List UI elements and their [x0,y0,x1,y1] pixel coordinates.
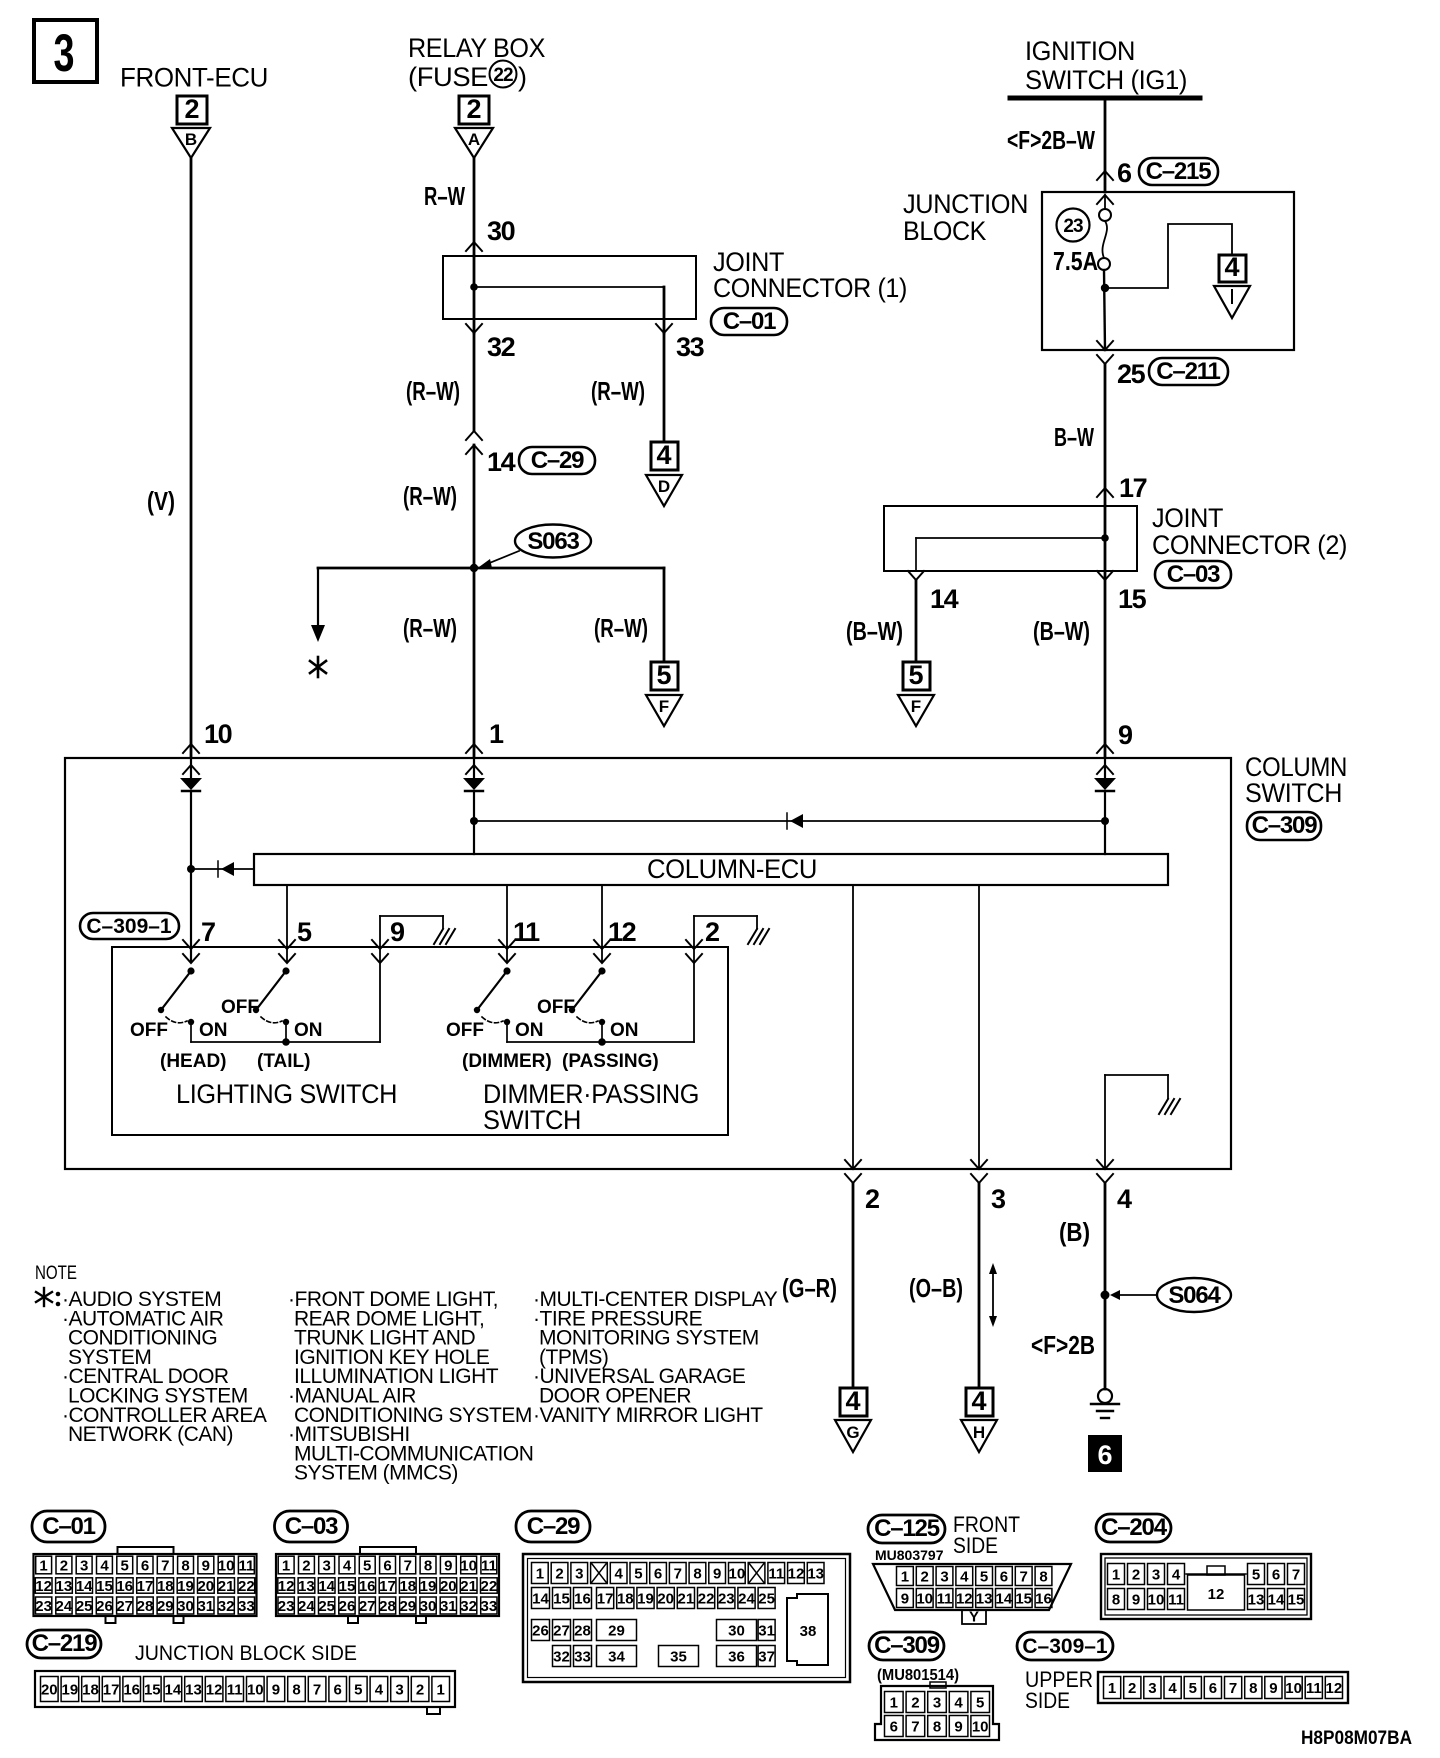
svg-text:13: 13 [1248,1592,1265,1609]
label COLUMN SWITCH C-309 [1245,752,1347,840]
svg-text:2: 2 [416,1682,424,1699]
svg-text:SIDE: SIDE [1025,1688,1070,1713]
chevron pin 6 [1097,171,1113,180]
svg-text:3: 3 [1148,1680,1156,1697]
svg-text:11: 11 [481,1558,497,1575]
wire internal bus with arrow [474,813,1105,829]
svg-text:CONNECTOR (2): CONNECTOR (2) [1152,530,1347,560]
svg-text:6: 6 [334,1682,342,1699]
svg-text:28: 28 [379,1598,396,1615]
chevron exit pin 2 [845,1160,861,1169]
ground bracket pin 9sw [380,916,455,944]
svg-text:11: 11 [1168,1592,1184,1609]
svg-text:3: 3 [940,1569,948,1586]
svg-text:(FUSE: (FUSE [408,62,488,92]
chevron pin 7 [183,954,199,963]
wire (R-W) 33 down [663,333,666,442]
svg-text:(R–W): (R–W) [591,376,645,406]
svg-text:5: 5 [976,1695,984,1712]
chevron pin 10 [183,744,199,753]
svg-text:23: 23 [35,1598,52,1615]
svg-text:11: 11 [238,1558,254,1575]
switch TAIL [253,967,290,1042]
svg-text:F: F [659,697,669,716]
svg-text:ON: ON [610,1020,639,1041]
wire (R-W) C-29 to S063 junction [473,445,476,568]
svg-text:12: 12 [788,1566,805,1583]
svg-text:17: 17 [137,1578,154,1595]
chevron pin 30 [466,242,482,251]
svg-text:5: 5 [634,1566,642,1583]
svg-text:8: 8 [693,1566,701,1583]
chevron below pin 2 [845,1174,861,1183]
svg-text:4: 4 [1168,1680,1177,1697]
svg-text:2: 2 [921,1569,929,1586]
svg-text:2: 2 [865,1184,879,1214]
svg-text:(B–W): (B–W) [846,616,903,646]
svg-text:6: 6 [141,1558,149,1575]
svg-text:3: 3 [991,1184,1006,1214]
svg-text:OFF: OFF [221,997,259,1018]
wire branch to 4 inside junction block [1105,224,1232,288]
svg-text:32: 32 [487,332,515,362]
svg-text:11: 11 [1306,1680,1322,1697]
wire (R-W) 32 to C-29 [473,333,476,430]
chevron pin 9 [1097,744,1113,753]
connector box 5 (to F) [651,660,678,690]
svg-text:C–309–1: C–309–1 [86,915,172,938]
triangle G [835,1420,871,1452]
svg-text:4: 4 [343,1558,352,1575]
chevron pin 11 [499,954,515,963]
svg-text:14: 14 [165,1682,182,1699]
connector pinout C-204 [1096,1514,1311,1619]
svg-text:6: 6 [1000,1569,1008,1586]
svg-text:5: 5 [354,1682,362,1699]
node junction left [187,865,195,873]
svg-text:8: 8 [292,1682,300,1699]
svg-text:12: 12 [1208,1586,1225,1603]
svg-text:SWITCH (IG1): SWITCH (IG1) [1025,65,1187,95]
svg-text:JOINT: JOINT [1152,503,1223,533]
triangle F [646,695,682,726]
svg-text:24: 24 [56,1598,73,1615]
svg-text:32: 32 [218,1598,235,1615]
chevron pin 5 [279,954,295,963]
svg-text:9: 9 [1132,1592,1140,1609]
pill C-03 [1155,561,1231,588]
svg-text:22: 22 [698,1591,715,1608]
wire pin 9sw [379,916,381,962]
ground bracket pin 2sw [694,916,769,944]
svg-text:4: 4 [845,1386,860,1416]
svg-text:30: 30 [177,1598,194,1615]
svg-text:4: 4 [954,1695,963,1712]
label RELAY BOX (FUSE 22) [408,33,545,92]
chevron exit pin 3 [971,1160,987,1169]
svg-text:C–215: C–215 [1146,158,1212,185]
label IGNITION SWITCH (IG1) [1025,36,1187,95]
chevron pin 2sw [686,954,702,963]
svg-text:C–29: C–29 [531,447,584,474]
svg-text:OFF: OFF [130,1020,168,1041]
svg-text:3: 3 [323,1558,331,1575]
svg-text:14: 14 [532,1591,549,1608]
svg-text:4: 4 [1117,1184,1132,1214]
svg-text:18: 18 [399,1578,416,1595]
wire junction to COLUMN-ECU left with arrow [191,861,254,877]
chevron pin 14 [908,571,924,580]
svg-text:12: 12 [956,1591,973,1608]
double arrow symbol [989,1263,997,1327]
svg-text:B: B [185,130,197,149]
svg-text:33: 33 [676,332,705,362]
wire (V) from FRONT-ECU to column switch [190,158,193,757]
sheet number box 3 [34,20,97,83]
svg-text:7.5A: 7.5A [1053,246,1098,276]
joint connector (1) box [443,256,696,319]
ground terminal [1091,1389,1119,1418]
svg-text:8: 8 [1039,1569,1047,1586]
svg-text:14: 14 [930,584,959,614]
triangle I [1214,286,1250,318]
label JOINT CONNECTOR (1) [713,247,907,303]
svg-text:27: 27 [359,1598,376,1615]
svg-text:4: 4 [656,440,671,470]
svg-text:11: 11 [227,1682,243,1699]
svg-text:33: 33 [574,1649,591,1666]
node S064 junction [1101,1291,1110,1300]
svg-text:4: 4 [960,1569,969,1586]
svg-text:7: 7 [1020,1569,1028,1586]
svg-text:C–29: C–29 [527,1513,580,1540]
wire pin9 down [1104,791,1106,854]
svg-text:25: 25 [318,1598,335,1615]
wire pin 4 inside box [1104,1075,1106,1169]
svg-text:C–309: C–309 [1252,812,1318,839]
triangle B [172,128,210,158]
svg-text:12: 12 [278,1578,295,1595]
svg-text:7: 7 [201,917,215,947]
svg-text:5: 5 [297,917,312,947]
svg-text:CONNECTOR (1): CONNECTOR (1) [713,273,907,303]
svg-text:(TAIL): (TAIL) [257,1051,310,1072]
svg-text:4: 4 [615,1566,624,1583]
lighting/dimmer switch box [112,947,728,1135]
circled fuse number 23 [1057,209,1090,242]
svg-text:): ) [518,62,527,92]
svg-text:19: 19 [637,1591,654,1608]
wire B-W [1104,364,1107,506]
svg-text:16: 16 [1035,1591,1052,1608]
svg-text:2: 2 [302,1558,310,1575]
svg-text:32: 32 [553,1649,570,1666]
svg-text:10: 10 [972,1719,989,1736]
svg-text:·VANITY MIRROR LIGHT: ·VANITY MIRROR LIGHT [533,1404,763,1427]
svg-text:6: 6 [654,1566,662,1583]
note block [35,1263,778,1485]
svg-text:2: 2 [705,917,719,947]
svg-text:25: 25 [76,1598,93,1615]
svg-text:3: 3 [933,1695,941,1712]
wire (G-R) [852,1183,855,1388]
svg-text:13: 13 [976,1591,993,1608]
ground reference box 6 [1088,1435,1122,1472]
svg-text:2: 2 [184,94,199,124]
wire lighting ON bus [191,963,380,1046]
triangle F right [898,695,934,726]
triangle H [961,1420,997,1452]
svg-text:7: 7 [911,1719,919,1736]
svg-text:29: 29 [157,1598,174,1615]
svg-text:9: 9 [202,1558,210,1575]
svg-text:11: 11 [937,1591,953,1608]
svg-text:26: 26 [96,1598,113,1615]
svg-text:28: 28 [137,1598,154,1615]
entry terminal pin 9 [1094,758,1116,791]
svg-text:(R–W): (R–W) [403,613,457,643]
svg-text:1: 1 [1108,1680,1116,1697]
svg-text:8: 8 [1249,1680,1257,1697]
wire (B-W) to column switch [1104,580,1107,757]
pill C-309-1 [80,913,179,939]
svg-text:RELAY BOX: RELAY BOX [408,33,545,63]
svg-text:20: 20 [657,1591,674,1608]
svg-text:LIGHTING SWITCH: LIGHTING SWITCH [176,1079,397,1109]
svg-text:A: A [468,130,480,149]
svg-text:16: 16 [123,1682,140,1699]
connector box 2 (RELAY BOX) [459,94,489,124]
wire through joint connector (2) [1104,506,1107,578]
chevron exit junction block [1097,341,1113,350]
chevron pin 17 [1097,488,1113,497]
wire to asterisk branch [311,568,325,642]
connector pinout C-309 [869,1632,999,1740]
connector box 4 (to I) [1219,252,1246,282]
svg-text:21: 21 [678,1591,695,1608]
label asterisk [310,657,326,677]
double chevron C-29 [466,431,482,454]
svg-text:21: 21 [218,1578,235,1595]
svg-text:9: 9 [954,1719,962,1736]
chevron pin 15 [1097,571,1113,580]
wire pin 2sw [693,916,695,962]
wire horizontal S063 bus [318,567,664,570]
svg-text:1: 1 [39,1558,47,1575]
connector pinout C-03 [275,1511,500,1623]
svg-text:(PASSING): (PASSING) [562,1051,659,1072]
svg-text:17: 17 [379,1578,396,1595]
svg-text:10: 10 [1285,1680,1302,1697]
svg-text:B–W: B–W [1054,422,1094,452]
svg-text:2: 2 [60,1558,68,1575]
wire (B-W) to 5F [915,580,918,662]
svg-text:18: 18 [617,1591,634,1608]
svg-text:ON: ON [199,1020,228,1041]
svg-text:5: 5 [1189,1680,1197,1697]
svg-text:OFF: OFF [446,1020,484,1041]
svg-text:5: 5 [1252,1567,1260,1584]
svg-text:(R–W): (R–W) [594,613,648,643]
svg-text:20: 20 [440,1578,457,1595]
svg-text:1: 1 [536,1566,544,1583]
svg-text:(O–B): (O–B) [909,1273,963,1303]
svg-text:31: 31 [197,1598,214,1615]
svg-text:2: 2 [1132,1567,1140,1584]
svg-text:15: 15 [96,1578,113,1595]
svg-text:14: 14 [996,1591,1013,1608]
switch PASSING [569,967,606,1042]
splice S063 [479,525,591,569]
svg-text:18: 18 [157,1578,174,1595]
svg-text:38: 38 [800,1623,817,1640]
svg-text:7: 7 [674,1566,682,1583]
svg-text:<F>2B: <F>2B [1031,1330,1095,1360]
svg-text:12: 12 [1326,1680,1343,1697]
svg-text:31: 31 [440,1598,457,1615]
svg-text:25: 25 [758,1591,775,1608]
svg-text:4: 4 [971,1386,986,1416]
ignition switch bus bar [1010,96,1200,101]
svg-text:13: 13 [807,1566,824,1583]
svg-text:C–309–1: C–309–1 [1022,1635,1108,1658]
svg-text:4: 4 [1172,1567,1181,1584]
svg-text:8: 8 [933,1719,941,1736]
wire ECU out pin 2 [852,885,854,1169]
svg-text:13: 13 [56,1578,73,1595]
svg-text:1: 1 [1112,1567,1120,1584]
svg-text:<F>2B–W: <F>2B–W [1007,125,1095,155]
svg-text:2: 2 [555,1566,563,1583]
chevron pin 12 [594,954,610,963]
svg-text:S063: S063 [527,528,579,555]
connector pinout C-29 [516,1511,850,1682]
chevron inside junction block [1097,195,1113,204]
svg-text:6: 6 [383,1558,391,1575]
svg-text:25: 25 [1117,359,1146,389]
svg-text:10: 10 [247,1682,264,1699]
node S063 junction dot [470,564,478,572]
svg-text:COLUMN-ECU: COLUMN-ECU [647,854,817,884]
connector box 2 (FRONT-ECU) [177,94,207,124]
wire (R-W) branch to 5F [663,568,666,662]
svg-text:MU803797: MU803797 [875,1547,944,1563]
label JOINT CONNECTOR (2) [1152,503,1347,560]
svg-text:(B): (B) [1059,1217,1090,1247]
svg-text:IGNITION: IGNITION [1025,36,1135,66]
svg-text:7: 7 [1229,1680,1237,1697]
wire (R-W) down from S063 [473,568,476,757]
svg-text:12: 12 [206,1682,223,1699]
svg-text:14: 14 [76,1578,93,1595]
svg-text:14: 14 [1268,1592,1285,1609]
svg-text:10: 10 [204,719,232,749]
svg-text:10: 10 [460,1558,477,1575]
label DIMMER PASSING SWITCH [483,1079,699,1135]
svg-text:35: 35 [670,1649,687,1666]
COLUMN-ECU box [254,854,1168,885]
chevron pin 1 [466,744,482,753]
svg-text:JUNCTION: JUNCTION [903,189,1028,219]
splice S064 [1110,1278,1231,1312]
connector box 5 (to F right) [903,660,930,690]
svg-text:BLOCK: BLOCK [903,216,986,246]
svg-text:R–W: R–W [424,181,465,211]
chevron pin 9sw [372,954,388,963]
svg-text:11: 11 [768,1566,784,1583]
svg-text:7: 7 [1292,1567,1300,1584]
svg-text:4: 4 [375,1682,384,1699]
svg-text:13: 13 [298,1578,315,1595]
node bus left dot [470,817,478,825]
svg-text:8: 8 [1112,1592,1120,1609]
joint connector (2) box [884,506,1137,571]
svg-text:15: 15 [1288,1592,1305,1609]
connector box 4 (to H) [966,1386,993,1416]
pill C-29 [519,447,595,474]
column switch box [65,758,1231,1169]
chevron pin 33 [656,324,672,333]
svg-text:28: 28 [574,1623,591,1640]
svg-text:(V): (V) [147,486,175,516]
svg-text:FRONT-ECU: FRONT-ECU [120,63,268,93]
svg-text:(HEAD): (HEAD) [160,1051,227,1072]
svg-text:17: 17 [103,1682,120,1699]
chevron exit pin 4 [1097,1160,1113,1169]
svg-text:22: 22 [238,1578,255,1595]
triangle D [646,475,682,506]
svg-text:8: 8 [424,1558,432,1575]
switch HEAD [158,967,195,1042]
svg-text:F: F [911,697,921,716]
svg-text:20: 20 [197,1578,214,1595]
switch DIMMER [474,967,511,1042]
svg-text:9: 9 [713,1566,721,1583]
wire R-W from relay box [473,158,476,256]
svg-text:6: 6 [1272,1567,1280,1584]
svg-text:15: 15 [1015,1591,1032,1608]
svg-text:(R–W): (R–W) [406,376,460,406]
svg-text:18: 18 [82,1682,99,1699]
svg-text:21: 21 [460,1578,477,1595]
svg-text:3: 3 [575,1566,583,1583]
svg-text:19: 19 [62,1682,79,1699]
pill C-01 [711,308,787,335]
svg-text:36: 36 [728,1649,745,1666]
wire pin 32 through joint connector [473,256,476,333]
wire ECU to pin 5 [286,885,288,962]
svg-text:5: 5 [363,1558,371,1575]
svg-text:16: 16 [574,1591,591,1608]
svg-text:9: 9 [901,1591,909,1608]
svg-text:H: H [973,1423,985,1442]
svg-text:4: 4 [100,1558,109,1575]
svg-text:1: 1 [437,1682,445,1699]
wire 2B-W from ignition [1104,98,1107,192]
svg-text:23: 23 [278,1598,295,1615]
svg-text:16: 16 [359,1578,376,1595]
connector box 4 (to D) [651,440,678,470]
svg-text:C–01: C–01 [42,1513,95,1540]
connector pinout C-01 [32,1511,257,1623]
svg-text:5: 5 [980,1569,988,1586]
fuse 23 7.5A [1098,195,1111,270]
svg-text:26: 26 [339,1598,356,1615]
svg-text:29: 29 [608,1623,625,1640]
svg-text:31: 31 [758,1623,775,1640]
svg-text:22: 22 [481,1578,498,1595]
svg-text:24: 24 [298,1598,315,1615]
